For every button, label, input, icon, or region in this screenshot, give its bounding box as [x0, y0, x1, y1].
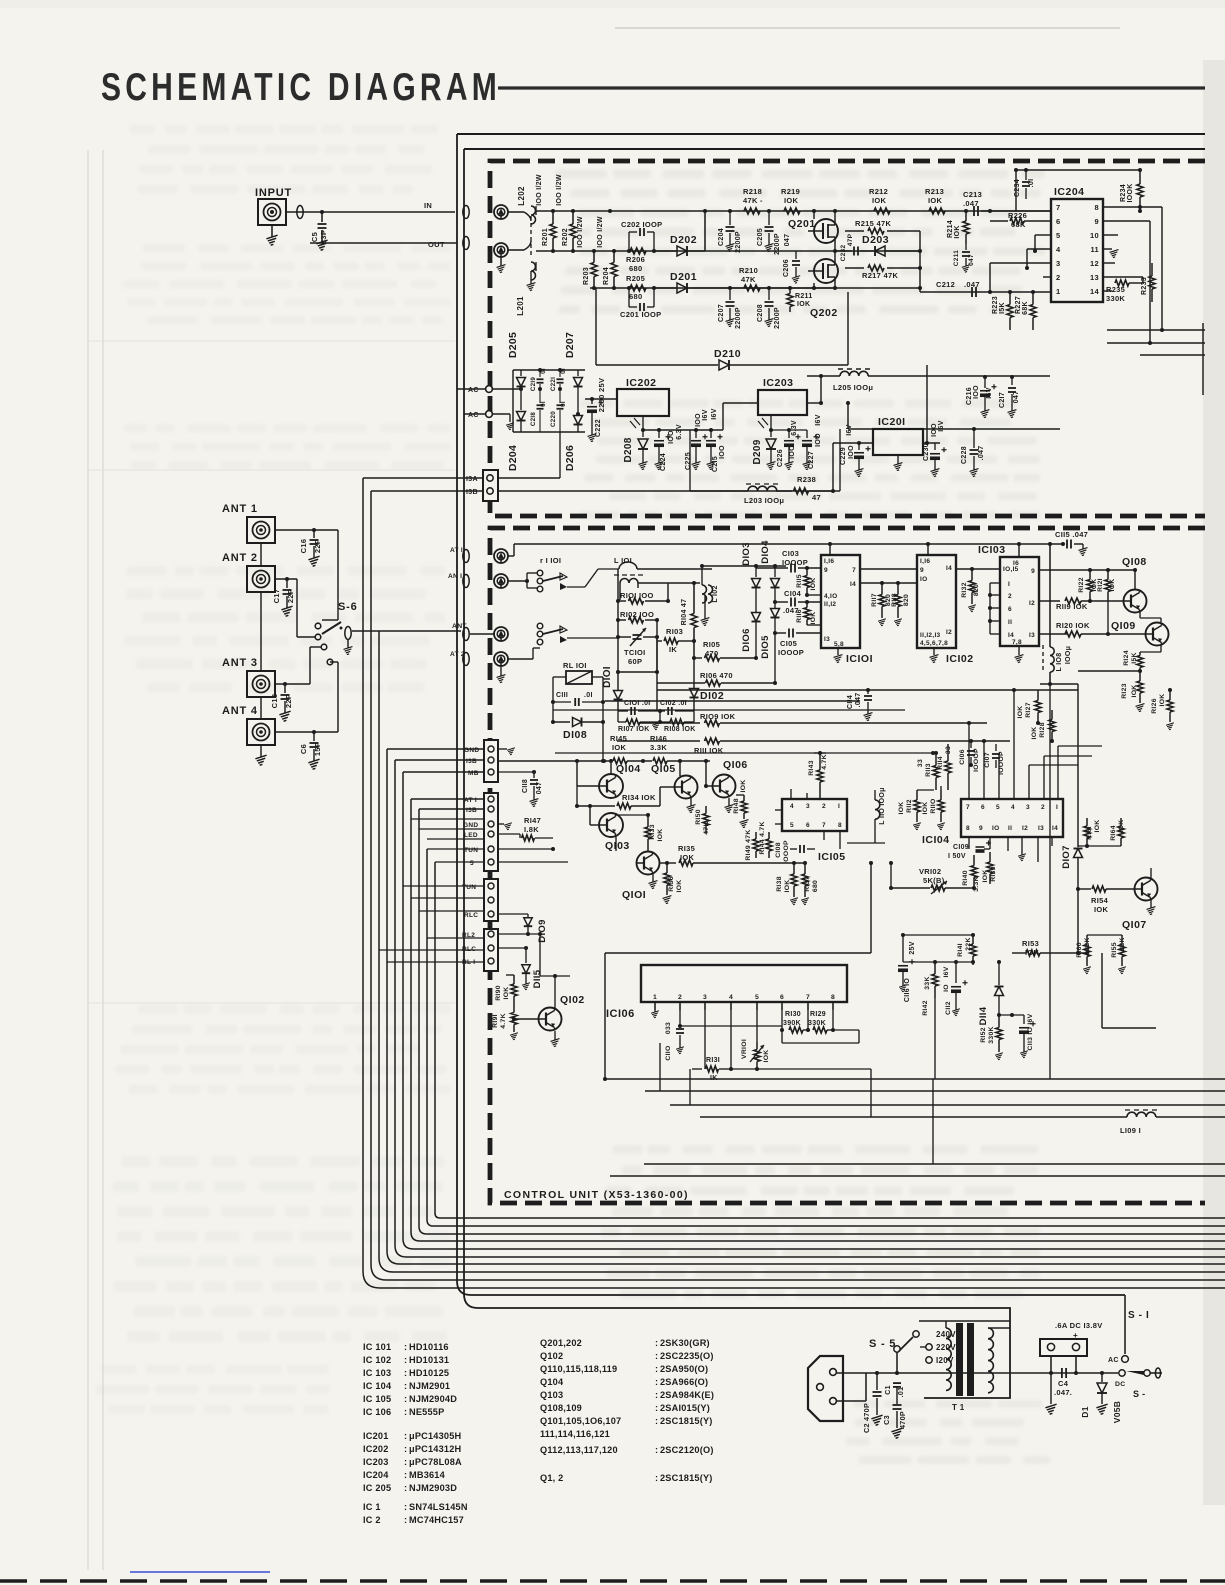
wire y1105	[670, 1104, 1225, 1106]
resistor R126 10K	[1151, 688, 1174, 730]
svg-text:R201: R201	[542, 228, 549, 246]
svg-text:Q201: Q201	[788, 218, 816, 230]
svg-text:AC: AC	[1108, 1357, 1119, 1364]
ANT wire label	[452, 623, 467, 630]
capacitor C108 1000P	[775, 840, 815, 864]
resistor R120 10K	[1056, 621, 1145, 637]
wire y935	[1087, 900, 1122, 935]
svg-text::: :	[655, 1377, 658, 1387]
svg-text:IC201: IC201	[363, 1431, 389, 1441]
IC204 pin numbers	[1056, 203, 1100, 296]
IC204 right pin10 stub	[1103, 234, 1118, 236]
svg-text:RI08 IOK: RI08 IOK	[664, 726, 696, 733]
wire fuse legs	[1049, 1356, 1078, 1375]
diode D201	[654, 271, 835, 293]
wire y753	[555, 751, 935, 755]
resistor R233	[1141, 263, 1155, 302]
wire bundle line 2	[371, 491, 1225, 1280]
svg-text:IOK: IOK	[898, 802, 905, 815]
wire y846	[1078, 845, 1121, 847]
wires RL101 box	[551, 677, 605, 763]
svg-text:RI26: RI26	[1151, 698, 1158, 714]
svg-text:7: 7	[966, 804, 970, 811]
svg-text:INPUT: INPUT	[255, 187, 292, 199]
resistor R123 10K	[1121, 671, 1144, 712]
resistor R138 10K	[776, 863, 798, 905]
svg-text:Q110,115,118,119: Q110,115,118,119	[540, 1364, 617, 1374]
svg-text:C222: C222	[595, 419, 602, 437]
svg-text:I6V: I6V	[846, 424, 853, 435]
svg-text:RI2I: RI2I	[1097, 578, 1104, 592]
svg-text::: :	[404, 1444, 407, 1454]
svg-text:6: 6	[780, 994, 784, 1001]
svg-text:RL2: RL2	[462, 932, 475, 939]
connector box TUN RLC	[462, 879, 498, 921]
svg-text:25V: 25V	[909, 941, 916, 954]
wire x973 down	[935, 965, 973, 1079]
IC106 box	[606, 965, 847, 1020]
svg-text:Q108,109: Q108,109	[540, 1403, 582, 1413]
ground GND row	[498, 748, 515, 755]
wire stub 9	[464, 413, 486, 415]
svg-text:I4: I4	[1052, 825, 1058, 832]
resistor R150 47K	[695, 784, 710, 835]
diode D109	[498, 914, 548, 943]
svg-text:.047: .047	[855, 693, 862, 708]
svg-text:5: 5	[470, 860, 474, 867]
svg-text:CII5 .047: CII5 .047	[1055, 530, 1088, 539]
svg-text:I4: I4	[850, 581, 856, 588]
coil L109 wire	[700, 1110, 1225, 1135]
ANT 3 label	[222, 657, 258, 669]
svg-text:6: 6	[1008, 606, 1012, 613]
resistor R210 47K	[739, 266, 760, 291]
resistor R117 820	[871, 583, 892, 626]
wire y690	[657, 688, 1078, 692]
svg-text:IOK: IOK	[676, 880, 683, 893]
capacitor C2 470P	[862, 1373, 883, 1433]
pot VR102 5K(B)	[889, 867, 974, 894]
svg-text:CIIO: CIIO	[665, 1045, 672, 1060]
svg-text:Q101,105,1O6,107: Q101,105,1O6,107	[540, 1416, 621, 1426]
svg-text:QI08: QI08	[1122, 556, 1147, 568]
transformer T1 secondary	[988, 1328, 1010, 1393]
svg-text:LI09 I: LI09 I	[1120, 1126, 1141, 1135]
svg-text:QI03: QI03	[605, 840, 630, 852]
svg-text:IOO: IOO	[668, 430, 675, 444]
wire y684	[1040, 671, 1078, 684]
svg-text:C230: C230	[923, 443, 930, 461]
svg-text:ANT 1: ANT 1	[222, 503, 258, 515]
svg-text:ICI03: ICI03	[978, 544, 1006, 556]
svg-text:C22I: C22I	[550, 377, 557, 391]
resistor R113 33	[917, 751, 939, 790]
svg-text:RII9 IOK: RII9 IOK	[1056, 602, 1088, 611]
diode D103	[741, 542, 761, 608]
svg-text:RI64: RI64	[1110, 825, 1117, 841]
capacitor C213 .047	[963, 190, 982, 216]
svg-text:2200P: 2200P	[735, 307, 742, 329]
LED D209	[752, 415, 776, 470]
wire 13B row	[497, 490, 833, 492]
wire IC203 out	[807, 374, 873, 405]
svg-text:QI06: QI06	[723, 759, 748, 771]
svg-text:L IO8: L IO8	[1056, 653, 1063, 672]
coil L101	[614, 556, 712, 600]
connector box GND 13B MB	[464, 740, 498, 782]
svg-text:RI35: RI35	[678, 844, 695, 853]
svg-text:MB3614: MB3614	[409, 1470, 446, 1480]
resistor R128 10K	[1031, 710, 1055, 743]
capacitor C220 .01	[550, 387, 567, 432]
svg-text:μPC14312H: μPC14312H	[409, 1444, 462, 1454]
resistor R132 820	[961, 569, 980, 612]
svg-text:RI40: RI40	[962, 870, 969, 886]
wire stub low 7	[411, 897, 483, 899]
resistor R227 68K	[1015, 290, 1036, 330]
svg-text:AC: AC	[468, 387, 479, 394]
IC101 box	[821, 555, 873, 665]
transistor Q102	[514, 974, 585, 1047]
svg-text:ICIOI: ICIOI	[846, 653, 873, 665]
capacitor C229 100 16V	[833, 424, 873, 476]
svg-text:IOK: IOK	[763, 1050, 770, 1063]
resistor R137 680	[801, 863, 819, 905]
svg-text:R210: R210	[739, 266, 758, 275]
transformer T1 label	[952, 1403, 965, 1412]
svg-text:+: +	[1073, 1331, 1078, 1340]
svg-text:IC 103: IC 103	[363, 1368, 391, 1378]
svg-text:2200P: 2200P	[735, 231, 742, 253]
svg-text:330K: 330K	[988, 1026, 995, 1043]
resistor R143 4.7K	[808, 753, 828, 799]
svg-text:IOK: IOK	[680, 853, 695, 862]
svg-text:OUT: OUT	[428, 240, 445, 249]
svg-text:CI03: CI03	[782, 549, 799, 558]
svg-text:I5K: I5K	[999, 302, 1006, 314]
wire IC101-IC102 row1	[860, 568, 917, 570]
wire MB row	[498, 771, 534, 773]
svg-text:IOK: IOK	[797, 301, 810, 308]
label S-2	[1133, 1389, 1145, 1399]
capacitor C112 10 16V	[943, 960, 968, 1016]
svg-text:QI09: QI09	[1111, 620, 1136, 632]
transformer L202 L201	[516, 186, 536, 316]
svg-text:LED: LED	[464, 832, 478, 839]
transformer T1 primary	[946, 1321, 951, 1390]
svg-text:C16: C16	[299, 539, 308, 554]
transistor Q108	[1122, 556, 1161, 622]
svg-text:047: 047	[536, 782, 543, 795]
wire IC102-IC103	[956, 567, 1000, 571]
svg-text:4: 4	[1011, 804, 1015, 811]
wire plug bottom up	[837, 1373, 866, 1401]
svg-text::: :	[655, 1351, 658, 1361]
svg-text:QI05: QI05	[651, 763, 676, 775]
trimmer TC101 60P	[616, 628, 657, 666]
jack IN	[494, 205, 508, 219]
svg-text:R204: R204	[603, 267, 610, 285]
wire relay to L101	[567, 569, 619, 587]
resistor R213 10K	[925, 187, 945, 214]
resistor R140 3.3K	[962, 849, 980, 892]
svg-text:I3B: I3B	[466, 807, 477, 814]
resistor R129 330K	[808, 1002, 835, 1033]
svg-text:RI90: RI90	[495, 985, 502, 1001]
svg-text:CI04: CI04	[784, 589, 802, 598]
IN label	[424, 201, 432, 210]
svg-text:111,114,116,121: 111,114,116,121	[540, 1429, 610, 1439]
svg-text:DII4: DII4	[978, 1006, 989, 1025]
svg-text:RI54: RI54	[1091, 896, 1109, 905]
svg-text:.047.: .047.	[1054, 1388, 1072, 1397]
resistor R234 100K	[1120, 168, 1143, 213]
resistor R112 10K	[898, 790, 934, 830]
fuse F1 .6A	[1040, 1339, 1087, 1356]
capacitor C18 22P	[270, 684, 293, 721]
transistor Q101	[622, 851, 660, 901]
transistor Q109	[1106, 601, 1169, 646]
svg-text:33P: 33P	[319, 230, 328, 244]
switch S-5 contact 120V	[926, 1356, 954, 1365]
svg-text:IOK: IOK	[1159, 694, 1166, 707]
svg-text:I3: I3	[824, 636, 830, 643]
INPUT jack J1	[258, 199, 286, 225]
svg-text::: :	[655, 1390, 658, 1400]
svg-text:IOK: IOK	[1094, 820, 1101, 833]
svg-text:SCHEMATIC DIAGRAM: SCHEMATIC DIAGRAM	[101, 65, 501, 109]
svg-text:RII4: RII4	[937, 756, 944, 770]
wire stub 8	[457, 388, 486, 390]
svg-text:13: 13	[1090, 273, 1099, 282]
svg-text:14: 14	[1090, 287, 1099, 296]
diode D106	[741, 608, 761, 658]
svg-text:4: 4	[729, 994, 733, 1001]
svg-text:RI07 IOK: RI07 IOK	[618, 726, 650, 733]
wire Q103 base	[588, 804, 599, 825]
wire stub low 11	[387, 961, 483, 963]
svg-text:2SC2235(O): 2SC2235(O)	[660, 1351, 714, 1361]
svg-text:RLC: RLC	[462, 946, 476, 953]
svg-text:RI03: RI03	[666, 627, 683, 636]
svg-text:IOK: IOK	[784, 196, 799, 205]
svg-text:RI43: RI43	[808, 760, 815, 776]
ANT 2 connector	[247, 566, 275, 592]
svg-text:D207: D207	[564, 332, 576, 358]
svg-text:D1: D1	[1080, 1406, 1090, 1417]
svg-text:4.7K: 4.7K	[821, 754, 828, 770]
svg-text:IOOμ: IOOμ	[1065, 646, 1072, 664]
IC101 top stub	[828, 542, 832, 555]
IC102 top stub	[926, 542, 930, 555]
svg-text:IOO I/2W: IOO I/2W	[597, 216, 604, 248]
svg-text:QI02: QI02	[560, 994, 585, 1006]
transistor Q106	[706, 759, 748, 813]
svg-text:8: 8	[838, 822, 842, 829]
connector ellipse on input wire	[297, 206, 303, 219]
svg-text:DI02: DI02	[700, 690, 724, 702]
resistor R226 68K	[988, 209, 1051, 229]
wire y962	[903, 935, 973, 962]
svg-text:IOO: IOO	[789, 445, 796, 459]
wire stub low 8	[419, 910, 483, 912]
IC103 jumper bracket	[988, 583, 1000, 634]
svg-text:I4: I4	[946, 565, 952, 572]
svg-text:7: 7	[1056, 203, 1060, 212]
svg-text:D208: D208	[623, 437, 634, 462]
svg-text:ANT 4: ANT 4	[222, 705, 258, 717]
svg-text:4.7K: 4.7K	[500, 1013, 507, 1029]
svg-text:2SA984K(E): 2SA984K(E)	[660, 1390, 714, 1400]
svg-text:1: 1	[653, 994, 657, 1001]
capacitor C3 470P	[882, 1387, 907, 1438]
svg-text:1: 1	[1056, 287, 1060, 296]
svg-text:C2I9: C2I9	[530, 377, 537, 392]
capacitor C222 2200 25V	[587, 378, 606, 442]
wire bridge out	[585, 397, 617, 401]
resistor R121 10K	[1097, 570, 1116, 601]
svg-text:IOOOP: IOOOP	[778, 648, 804, 657]
svg-text:IC 104: IC 104	[363, 1381, 392, 1391]
svg-text:680: 680	[812, 880, 819, 892]
svg-text:60P: 60P	[628, 657, 642, 666]
svg-text:AT 2: AT 2	[450, 651, 465, 658]
IC103 box	[978, 544, 1039, 646]
coil L110 100u	[847, 787, 886, 831]
wire bundle line 5	[395, 760, 1225, 1257]
svg-text:0I: 0I	[560, 401, 567, 407]
jack AT2	[494, 652, 508, 666]
IC102 box	[917, 555, 974, 665]
svg-text:L203 IOOμ: L203 IOOμ	[744, 496, 784, 505]
wire stub 5	[403, 771, 483, 773]
svg-text:CII4: CII4	[847, 695, 854, 709]
svg-text:V05B: V05B	[1112, 1401, 1122, 1423]
svg-text:5: 5	[790, 822, 794, 829]
svg-text:DIO9: DIO9	[537, 919, 548, 942]
svg-text:33: 33	[917, 759, 924, 767]
wire y671	[1078, 670, 1140, 672]
svg-text:AT I: AT I	[450, 547, 463, 554]
svg-text:D201: D201	[670, 271, 697, 283]
wire C213 to pin7	[981, 168, 1051, 211]
wire ANT2 right	[275, 577, 297, 581]
wire y672	[616, 637, 659, 711]
capacitor C206	[783, 251, 800, 283]
svg-text::: :	[404, 1368, 407, 1378]
svg-text:ICI04: ICI04	[922, 834, 950, 846]
resistor R144 4.7K	[759, 821, 772, 858]
wire AC1	[493, 388, 521, 390]
svg-text:IC 205: IC 205	[363, 1483, 391, 1493]
svg-text:C220: C220	[550, 411, 557, 427]
svg-text:IC203: IC203	[363, 1457, 389, 1467]
wire Q101 row	[660, 861, 676, 865]
svg-text:RI30: RI30	[785, 1011, 801, 1018]
resistor R122 10K	[1078, 570, 1098, 603]
svg-text:C208: C208	[757, 304, 764, 322]
svg-text:IC 102: IC 102	[363, 1355, 391, 1365]
IC105 stubs	[775, 789, 840, 849]
svg-text::: :	[655, 1416, 658, 1426]
svg-text::: :	[655, 1403, 658, 1413]
svg-text:6: 6	[806, 822, 810, 829]
svg-text:5: 5	[996, 804, 1000, 811]
svg-text:IOK: IOK	[1017, 706, 1024, 719]
svg-text:IOO: IOO	[695, 413, 702, 427]
svg-text:9: 9	[824, 567, 828, 574]
svg-text::: :	[404, 1342, 407, 1352]
resistor R101 100	[618, 591, 670, 604]
svg-text:AN I: AN I	[448, 573, 462, 580]
wire INPUT to IN	[286, 210, 455, 214]
IC106 pin1 gnd	[651, 1002, 659, 1018]
svg-text:47K -: 47K -	[743, 196, 763, 205]
switch S-6 label	[338, 601, 358, 613]
wire y701	[605, 700, 860, 702]
plug pin 1	[830, 1369, 837, 1376]
svg-text::: :	[404, 1355, 407, 1365]
rail mid RF	[655, 583, 668, 672]
svg-text:IOK: IOK	[922, 802, 929, 815]
svg-text:DIO5: DIO5	[760, 635, 771, 659]
svg-text:820: 820	[973, 584, 980, 596]
wire bundle line 4	[387, 749, 1225, 1264]
svg-text:RI34 IOK: RI34 IOK	[622, 793, 656, 802]
svg-text:RI60: RI60	[1076, 942, 1083, 958]
resistor R153 10K	[1012, 939, 1087, 957]
wire L102 top	[702, 544, 786, 569]
capacitor C17 22P	[272, 579, 295, 616]
diode D203	[860, 234, 920, 256]
transistor Q107	[1122, 868, 1158, 931]
svg-text:IOO I/2W: IOO I/2W	[556, 174, 563, 206]
svg-text:2SC2120(O): 2SC2120(O)	[660, 1445, 714, 1455]
jack AT1	[494, 549, 508, 563]
svg-text:3: 3	[806, 803, 810, 810]
switch S-5 label	[869, 1338, 896, 1350]
jack ANT	[494, 627, 508, 641]
svg-text::: :	[404, 1407, 407, 1417]
wire stub 6	[411, 798, 483, 800]
mosfet Q201	[788, 209, 838, 243]
svg-text:22P: 22P	[284, 694, 293, 708]
svg-text:RI53: RI53	[1022, 939, 1039, 948]
capacitor C228 .047	[961, 427, 985, 477]
capacitor C111 .01	[553, 692, 603, 706]
wire drop x871	[870, 1069, 872, 1117]
INPUT label	[255, 187, 292, 199]
wire stub 3	[387, 748, 483, 750]
svg-text:I 50V: I 50V	[948, 853, 966, 860]
svg-text:C2I7: C2I7	[999, 392, 1006, 408]
IC204 box	[1051, 186, 1103, 302]
resistor R152 330K	[980, 1015, 1003, 1060]
svg-text:I6V: I6V	[986, 387, 993, 398]
AC input circle 1	[468, 386, 492, 394]
svg-text:MC74HC157: MC74HC157	[409, 1515, 464, 1525]
ground below ANT4	[255, 744, 266, 765]
svg-text:CII3 IO I6V: CII3 IO I6V	[1027, 1013, 1034, 1050]
svg-text:047: 047	[1013, 391, 1020, 404]
svg-text:R227: R227	[1015, 296, 1022, 314]
transistor Q104	[599, 761, 641, 813]
svg-text:47: 47	[812, 493, 821, 502]
IC102 pin labels	[920, 558, 952, 647]
svg-text:033: 033	[665, 1022, 672, 1034]
svg-text:I2: I2	[946, 629, 952, 636]
svg-text:RI02 IOO: RI02 IOO	[620, 610, 654, 619]
